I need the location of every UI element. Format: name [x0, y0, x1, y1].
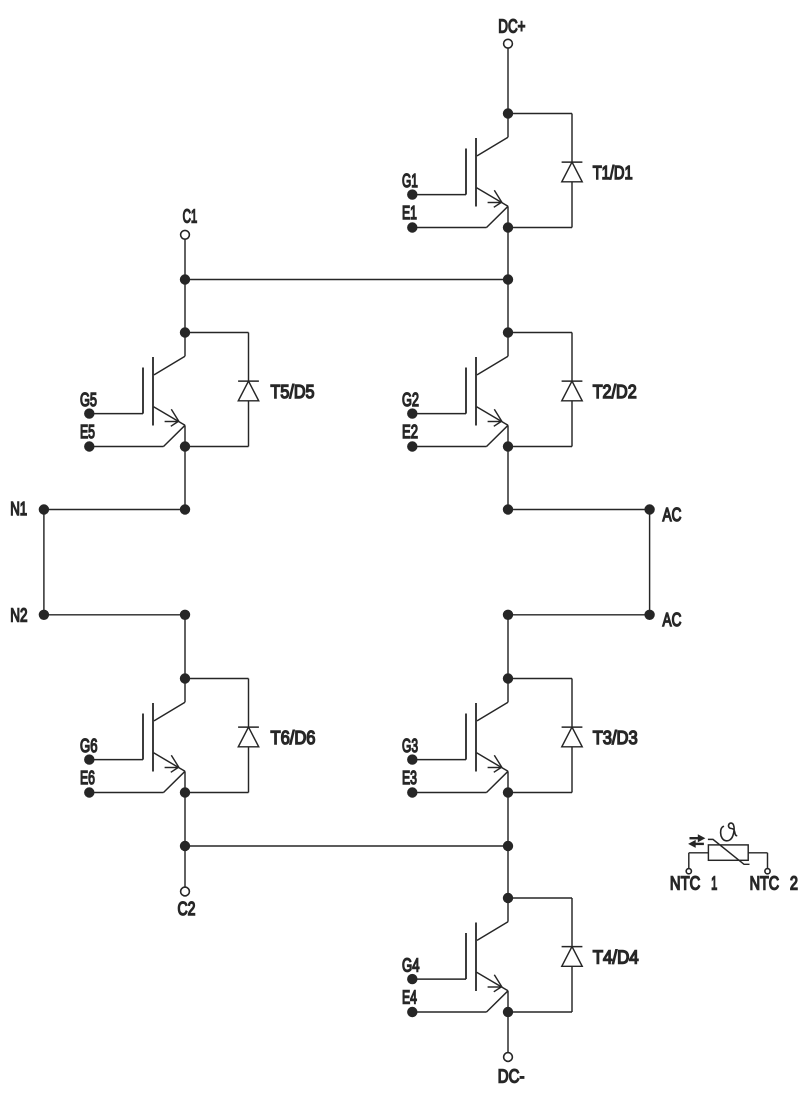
svg-text:C2: C2	[178, 899, 196, 920]
terminal NTC 2	[765, 869, 770, 874]
heat-flow arrow right	[690, 834, 706, 842]
wire T2 emitter to AC node	[507, 447, 509, 510]
wire T6 emitter to C2 bus	[184, 793, 186, 847]
terminal dot E3	[407, 787, 417, 797]
wire N1 to T5 emitter node	[44, 509, 185, 511]
svg-text:E4: E4	[402, 988, 417, 1009]
terminal dot E4	[407, 1007, 417, 1017]
junction node C2 bus left	[180, 841, 190, 851]
junction node C1 bus right	[503, 274, 513, 284]
junction node N1 right	[180, 504, 190, 514]
junction node C1 bus left	[180, 274, 190, 284]
svg-text:G6: G6	[80, 736, 98, 757]
wire T3 emitter to T4 collector	[507, 793, 509, 899]
terminal C2	[181, 887, 190, 896]
terminal dot G6	[84, 754, 94, 764]
junction node T4 collector	[503, 893, 513, 903]
svg-text:NTC: NTC	[670, 874, 700, 895]
terminal C1	[181, 230, 190, 239]
junction node T1 emitter	[503, 222, 513, 232]
wire AC node to T3 collector	[507, 615, 509, 679]
wire T5 emitter to N1 node	[184, 447, 186, 510]
svg-text:E5: E5	[80, 422, 95, 443]
terminal dot E5	[84, 441, 94, 451]
transistor T5 (IGBT)	[89, 333, 185, 447]
wire T4 emitter to DC-	[507, 1012, 509, 1053]
terminal NTC 1	[686, 869, 691, 874]
wire N1 to N2 link	[43, 510, 45, 615]
wire NTC left drop	[688, 853, 690, 869]
svg-text:2: 2	[790, 874, 798, 895]
svg-text:T5/D5: T5/D5	[271, 382, 315, 403]
junction node T5 emitter	[180, 441, 190, 451]
junction node C2 bus right	[503, 841, 513, 851]
transistor T4 (IGBT)	[412, 898, 508, 1012]
svg-text:NTC: NTC	[750, 874, 780, 895]
svg-text:G4: G4	[402, 955, 420, 976]
wire C1 to T5 collector	[184, 239, 186, 332]
svg-text:T3/D3: T3/D3	[593, 728, 638, 749]
svg-text:E2: E2	[402, 422, 418, 443]
transistor T3 (IGBT)	[412, 679, 508, 793]
junction node T4 emitter	[503, 1007, 513, 1017]
svg-text:G2: G2	[402, 390, 419, 411]
diode D2 (freewheeling)	[508, 333, 582, 447]
junction node T5 collector	[180, 327, 190, 337]
terminal dot E6	[84, 787, 94, 797]
terminal dot E2	[407, 441, 417, 451]
junction node AC terminal 2	[644, 610, 654, 620]
svg-text:DC+: DC+	[498, 16, 525, 37]
svg-text:N2: N2	[10, 606, 27, 627]
wire N2 node to T6 collector	[184, 615, 186, 679]
diode D6 (freewheeling)	[185, 679, 259, 793]
junction node T6 collector	[180, 673, 190, 683]
wire T1 emitter to T2 collector	[507, 228, 509, 333]
svg-text:T4/D4: T4/D4	[593, 947, 639, 968]
svg-text:G5: G5	[80, 390, 97, 411]
svg-text:DC-: DC-	[498, 1066, 525, 1087]
wire T2 emitter node to AC terminal 1	[508, 509, 650, 511]
label theta (temperature symbol)	[721, 823, 737, 841]
terminal dot G2	[407, 408, 417, 418]
svg-text:T1/D1: T1/D1	[593, 163, 633, 184]
wire AC link vertical	[649, 510, 651, 615]
svg-text:C1: C1	[183, 206, 198, 227]
wire N2 to T6 collector node	[44, 614, 185, 616]
transistor T1 (IGBT)	[412, 114, 508, 228]
wire NTC right lead	[748, 852, 767, 854]
wire NTC right drop	[767, 853, 769, 869]
junction node N2	[39, 610, 49, 620]
svg-text:T2/D2: T2/D2	[593, 382, 637, 403]
diode D1 (freewheeling)	[508, 114, 582, 228]
terminal dot G3	[407, 754, 417, 764]
svg-text:T6/D6: T6/D6	[271, 728, 316, 749]
wire C2 bus to C2 terminal	[184, 846, 186, 887]
terminal DC-	[504, 1053, 513, 1062]
diode D4 (freewheeling)	[508, 898, 582, 1012]
svg-text:N1: N1	[10, 499, 27, 520]
junction node N2 right	[180, 610, 190, 620]
svg-text:E1: E1	[402, 203, 417, 224]
terminal DC+	[504, 39, 513, 48]
junction node AC row 2 left	[503, 610, 513, 620]
junction node N1	[39, 504, 49, 514]
transistor T6 (IGBT)	[89, 679, 185, 793]
junction node T2 collector	[503, 327, 513, 337]
diode D5 (freewheeling)	[185, 333, 259, 447]
junction node T3 collector	[503, 673, 513, 683]
wire NTC left lead	[689, 852, 709, 854]
junction node AC row 1 left	[503, 504, 513, 514]
junction node T2 emitter	[503, 441, 513, 451]
svg-text:AC: AC	[663, 610, 682, 631]
svg-text:1: 1	[711, 874, 717, 895]
wire bus C2 to T3/T4 midpoint	[185, 845, 508, 847]
terminal dot G4	[407, 974, 417, 984]
svg-text:G1: G1	[402, 171, 418, 192]
wire DC+ to T1	[507, 48, 509, 113]
wire bus C1 to T1/T2 midpoint	[185, 279, 508, 281]
heat-flow arrow left	[688, 840, 704, 848]
diode D3 (freewheeling)	[508, 679, 582, 793]
terminal dot E1	[407, 222, 417, 232]
terminal dot G1	[407, 189, 417, 199]
thermistor NTC diagonal strike	[708, 839, 750, 864]
junction node T3 emitter	[503, 787, 513, 797]
svg-text:AC: AC	[663, 505, 682, 526]
junction node T1 collector	[503, 108, 513, 118]
junction node T6 emitter	[180, 787, 190, 797]
svg-text:E3: E3	[402, 768, 417, 789]
terminal dot G5	[84, 408, 94, 418]
transistor T2 (IGBT)	[412, 333, 508, 447]
wire AC terminal 2 to T3 collector node	[508, 614, 650, 616]
svg-text:G3: G3	[402, 736, 418, 757]
thermistor NTC (resistor body)	[708, 845, 748, 860]
junction node AC terminal 1	[644, 504, 654, 514]
svg-text:E6: E6	[80, 768, 95, 789]
